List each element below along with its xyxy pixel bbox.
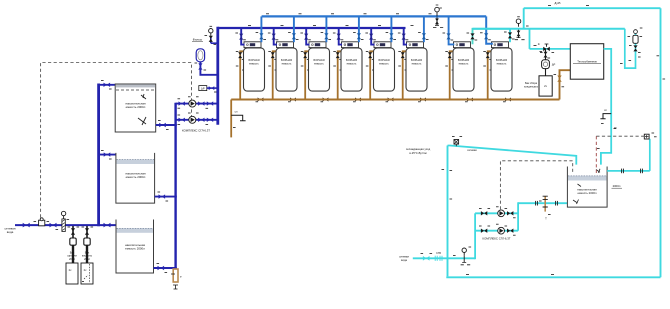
valve blue feed R8 bbox=[484, 33, 488, 39]
svg-text:конденсата: конденсата bbox=[524, 86, 538, 89]
heat exchanger HX1 bbox=[570, 44, 603, 79]
label above header near R1 bbox=[248, 24, 251, 26]
water meter FQ1 bbox=[39, 220, 45, 226]
valve navy stub R6 bbox=[402, 34, 406, 40]
valve on CIP riser R5 bbox=[368, 52, 372, 58]
valve on bottom header under R2 bbox=[290, 98, 296, 102]
gauge on supply bbox=[462, 248, 466, 252]
svg-text:вода: вода bbox=[7, 230, 14, 234]
valve on HX inlet bbox=[543, 47, 550, 51]
svg-text:емкость: емкость bbox=[282, 63, 292, 66]
valve blue stub R1 bbox=[259, 33, 263, 39]
tank R6 vessel bbox=[406, 48, 427, 91]
valve block on tank R4 bbox=[342, 42, 359, 48]
mark on HX drop bbox=[614, 127, 617, 129]
pump P3 circulation bbox=[498, 210, 505, 217]
svg-text:200л: 200л bbox=[84, 257, 90, 261]
wire relief loop bbox=[625, 29, 636, 68]
regulator on relief riser bbox=[633, 35, 638, 43]
wire cooling slant line bbox=[448, 146, 577, 165]
svg-text:БОРНАЯ: БОРНАЯ bbox=[249, 58, 260, 62]
pipe CIP brown riser tank R8 bbox=[488, 51, 492, 99]
svg-text:ΔР: ΔР bbox=[552, 63, 556, 67]
valve block on tank R6 bbox=[407, 42, 424, 48]
wire blue stub tank R6 bbox=[423, 16, 425, 42]
svg-text:вода: вода bbox=[401, 259, 407, 262]
check valve row1 bbox=[207, 101, 213, 105]
svg-text:Бак сбора: Бак сбора bbox=[525, 81, 538, 85]
label on cooling drop bbox=[442, 169, 445, 171]
valve navy stub R1 bbox=[239, 34, 243, 40]
valve on CIP riser R6 bbox=[401, 52, 405, 58]
valve row1 suction bbox=[179, 101, 185, 105]
valve seafoam stub R7 bbox=[470, 33, 474, 39]
tank R8 vessel bbox=[491, 48, 512, 91]
svg-text:БОРНАЯ: БОРНАЯ bbox=[314, 58, 325, 62]
valve block on tank R1 bbox=[244, 42, 261, 48]
svg-text:в-25°С-Ву=1м: в-25°С-Ву=1м bbox=[409, 151, 426, 155]
wire condensate line bbox=[545, 49, 547, 76]
wire navy stub tank R5 bbox=[371, 28, 374, 45]
svg-text:БОРНАЯ: БОРНАЯ bbox=[496, 58, 507, 62]
valve on brown riser bbox=[557, 76, 561, 82]
wire tank T4 return inlet bbox=[607, 170, 650, 172]
wire cyan line into HX bbox=[530, 48, 571, 50]
svg-text:емкость: емкость bbox=[497, 63, 507, 66]
wire tank T1 outlet stub bbox=[156, 124, 177, 126]
dosing pump DP2 bbox=[84, 238, 90, 245]
svg-text:сл: сл bbox=[235, 111, 238, 114]
svg-text:емкость: емкость bbox=[412, 63, 422, 66]
wire dosing branch 2 bbox=[86, 226, 88, 263]
gauge PI3 on blue header bbox=[435, 7, 440, 12]
label above header near R5 bbox=[378, 24, 381, 26]
valve on bottom header under R3 bbox=[323, 98, 329, 102]
valve row2 suction bbox=[179, 118, 185, 122]
check valve row2 bbox=[207, 118, 213, 122]
svg-text:емкость 2000л: емкость 2000л bbox=[577, 191, 596, 195]
wire circ manifold left riser bbox=[474, 213, 476, 259]
gauge PI4 on cyan header bbox=[516, 19, 521, 24]
pipe CIP brown riser tank R1 bbox=[240, 51, 244, 99]
wire cyan top loop riser bbox=[523, 8, 525, 29]
svg-text:емкость: емкость bbox=[347, 63, 357, 66]
gauge PI1 with strainer bbox=[61, 211, 65, 215]
valve row1 discharge bbox=[198, 101, 204, 105]
tank R5 vessel bbox=[374, 48, 395, 91]
valve on bottom header under R7 bbox=[467, 98, 473, 102]
svg-text:КОМПЛЕКС СГЛ-6,3Т: КОМПЛЕКС СГЛ-6,3Т bbox=[182, 128, 210, 132]
pipe brown to heat exchanger bbox=[560, 70, 571, 99]
valve blue stub R3 bbox=[324, 33, 328, 39]
dosing pump DP1 bbox=[70, 238, 76, 245]
wire navy stub tank R6 bbox=[404, 28, 407, 45]
label dP left bbox=[199, 86, 207, 91]
valve row2 discharge bbox=[198, 118, 204, 122]
svg-text:КОМПЛЕКС СГЛ-6,3Т: КОМПЛЕКС СГЛ-6,3Т bbox=[483, 237, 511, 241]
valve on CIP riser R1 bbox=[238, 52, 242, 58]
pipe CIP brown riser tank R6 bbox=[403, 51, 407, 99]
wire blue distribution header bbox=[262, 15, 487, 17]
pipe CIP brown riser tank R7 bbox=[450, 51, 454, 99]
wire cyan drop to HX line bbox=[529, 29, 531, 49]
svg-text:2г: 2г bbox=[538, 42, 540, 46]
wire main riser to headers bbox=[216, 27, 219, 125]
valve V5 tank T2 inlet bbox=[104, 152, 111, 156]
valve on relief riser bbox=[633, 45, 637, 51]
wire tank T3 outlet stub bbox=[154, 267, 177, 269]
wire cyan stub tank R8 bbox=[509, 29, 511, 42]
valve on bottom header under R1 bbox=[258, 98, 264, 102]
wire cyan right drop bbox=[660, 8, 662, 277]
pipe brown header drain drop bbox=[230, 100, 232, 138]
svg-text:ΔР: ΔР bbox=[201, 86, 205, 90]
wire blue stub tank R1 bbox=[260, 16, 262, 42]
svg-text:сл: сл bbox=[604, 109, 607, 112]
valve cyan on supply bbox=[423, 256, 430, 261]
valve circ row2 left bbox=[481, 229, 487, 233]
svg-text:БОРНАЯ: БОРНАЯ bbox=[411, 58, 422, 62]
tank R7 vessel bbox=[453, 48, 474, 91]
wire dashed control meter to pumps bbox=[41, 63, 192, 218]
pipe brown collection header bbox=[231, 99, 559, 101]
wire navy distribution header bbox=[218, 27, 406, 29]
steam trap bbox=[542, 60, 550, 69]
pipe CIP brown riser tank R4 bbox=[338, 51, 342, 99]
wire tank T1 inlet stub bbox=[99, 84, 116, 86]
valve on bottom header under R8 bbox=[505, 98, 511, 102]
svg-text:емкость 2000л: емкость 2000л bbox=[125, 247, 145, 251]
valve on CIP riser R7 bbox=[448, 52, 452, 58]
wire cyan return header bbox=[473, 28, 625, 30]
valve block on tank R3 bbox=[309, 42, 326, 48]
valve V1 on supply bbox=[23, 223, 30, 228]
svg-text:емкость: емкость bbox=[459, 63, 469, 66]
svg-text:Т: Т bbox=[180, 275, 182, 279]
vent below cyan header bbox=[518, 30, 520, 38]
label above header near R4 bbox=[346, 24, 349, 26]
svg-text:охлаждающая уход: охлаждающая уход bbox=[406, 148, 431, 151]
wire manifold row 1 bbox=[176, 103, 219, 105]
chem tank B1 bbox=[66, 263, 78, 284]
pump P2 transfer bbox=[189, 116, 196, 123]
wire dosing branch 1 bbox=[72, 226, 74, 263]
valve block on tank R2 bbox=[277, 42, 294, 48]
wire navy stub tank R2 bbox=[274, 28, 277, 45]
wire manifold row 2 bbox=[176, 119, 219, 121]
valve V4 tank T1 inlet bbox=[104, 83, 111, 87]
tank T1 storage bbox=[115, 84, 156, 132]
svg-text:БОРНАЯ: БОРНАЯ bbox=[379, 58, 390, 62]
valve V6 tank T1 outlet bbox=[159, 123, 166, 127]
valve blue stub R5 bbox=[389, 33, 393, 39]
svg-text:Теплообменник: Теплообменник bbox=[577, 60, 597, 64]
wire circ row 2 bbox=[475, 230, 518, 232]
svg-text:БОРНАЯ: БОРНАЯ bbox=[458, 58, 469, 62]
wire cyan bottom return bbox=[446, 276, 660, 278]
wire HX outlet bbox=[601, 49, 611, 165]
valve on CIP riser R2 bbox=[271, 52, 275, 58]
valve blue stub R6 bbox=[422, 33, 426, 39]
control valve on suction bbox=[544, 196, 546, 211]
valve block on tank R5 bbox=[374, 42, 391, 48]
wire blue stub tank R7 bbox=[449, 16, 455, 44]
wire supply main water line bbox=[15, 224, 116, 226]
valve V2 on supply bbox=[50, 223, 57, 228]
valve V3 before tank T3 bbox=[104, 223, 111, 228]
label above header near R2 bbox=[281, 24, 284, 26]
level instrument LT bbox=[644, 134, 649, 139]
gauge on relief riser bbox=[634, 30, 638, 34]
valve dosing 1 bbox=[71, 228, 75, 234]
valve vent on riser top bbox=[210, 36, 212, 43]
wire cyan top loop horizontal bbox=[524, 7, 661, 9]
label on bottom return bbox=[551, 274, 554, 276]
valve circ row1 right bbox=[507, 211, 513, 215]
condensate vessel bbox=[539, 76, 552, 96]
tank R1 vessel bbox=[244, 48, 265, 91]
wire blue stub tank R4 bbox=[358, 16, 360, 42]
svg-text:Ду25: Ду25 bbox=[555, 1, 562, 5]
wire level riser bbox=[649, 139, 651, 171]
valve dP stub bbox=[209, 86, 215, 90]
wire dashed maroon drop bbox=[595, 136, 597, 175]
coupling on supply bbox=[434, 256, 436, 261]
wire navy stub tank R1 bbox=[241, 28, 244, 45]
wire cooling supply line bbox=[413, 257, 475, 259]
tank R4 vessel bbox=[341, 48, 362, 91]
valve circ row1 left bbox=[481, 211, 487, 215]
tank R3 vessel bbox=[309, 48, 330, 91]
label on top loop bbox=[548, 4, 551, 6]
valve on CIP riser R8 bbox=[486, 52, 490, 58]
wire circ row 1 bbox=[475, 212, 518, 214]
drain fitting below riser bbox=[173, 269, 178, 282]
pump P4 circulation bbox=[498, 227, 505, 234]
valve dosing 2 bbox=[85, 228, 89, 234]
svg-text:сетевая: сетевая bbox=[399, 256, 409, 259]
valve blue stub R2 bbox=[292, 33, 296, 39]
flanges on suction bbox=[535, 201, 537, 206]
pipe CIP brown riser tank R2 bbox=[273, 51, 277, 99]
tank T3 storage bbox=[116, 220, 154, 274]
svg-text:Т: Т bbox=[545, 217, 547, 221]
valve on bottom header under R5 bbox=[388, 98, 394, 102]
wire navy stub tank R4 bbox=[339, 28, 342, 45]
svg-text:СГВ: СГВ bbox=[436, 252, 441, 255]
drain elbow on brown drop bbox=[231, 115, 245, 121]
svg-text:БОРНАЯ: БОРНАЯ bbox=[346, 58, 357, 62]
tank T4 cooling buffer bbox=[567, 167, 607, 208]
valve on CIP riser R4 bbox=[336, 52, 340, 58]
wire filter to riser bbox=[200, 62, 217, 75]
wire blue stub tank R5 bbox=[390, 16, 392, 42]
label above header near R3 bbox=[313, 24, 316, 26]
tank R2 vessel bbox=[276, 48, 297, 91]
valve navy stub R2 bbox=[272, 34, 276, 40]
valve navy stub R3 bbox=[304, 34, 308, 40]
valve on condensate line bbox=[544, 52, 548, 58]
svg-text:200л: 200л bbox=[69, 257, 75, 261]
valve blue stub R7 bbox=[447, 33, 451, 39]
instrument on slant line bbox=[454, 140, 459, 145]
svg-text:2000л: 2000л bbox=[613, 184, 621, 188]
wire riser tank outlets bbox=[174, 103, 176, 269]
svg-text:емкость: емкость bbox=[249, 63, 259, 66]
pipe CIP brown riser tank R5 bbox=[370, 51, 374, 99]
pump P1 transfer bbox=[189, 100, 196, 107]
valve navy stub R5 bbox=[369, 34, 373, 40]
svg-text:емкость 2000л: емкость 2000л bbox=[126, 175, 146, 179]
wire circ right riser bbox=[517, 202, 519, 230]
valve block on tank R7 bbox=[454, 42, 471, 48]
valve V7 tank T2 outlet bbox=[159, 194, 166, 198]
valve cyan stub R8 bbox=[508, 32, 512, 38]
wire dashed pump control bbox=[500, 161, 572, 210]
valve on bottom header under R4 bbox=[355, 98, 361, 102]
label above header near R6 bbox=[411, 24, 414, 26]
wire tank T2 inlet stub bbox=[99, 154, 116, 156]
wire dP to riser bbox=[207, 87, 218, 89]
wire dashed level to valve bbox=[596, 135, 644, 137]
valve on CIP riser R3 bbox=[303, 52, 307, 58]
wire blue stub tank R3 bbox=[325, 16, 327, 42]
chem tank B2 bbox=[81, 263, 93, 284]
valve block on tank R8 bbox=[492, 42, 509, 48]
wire tank T2 outlet stub bbox=[155, 196, 177, 198]
svg-text:БОРНАЯ: БОРНАЯ bbox=[281, 58, 292, 62]
svg-text:сетевая: сетевая bbox=[467, 149, 477, 152]
wire riser left feed bbox=[97, 84, 100, 227]
wire seafoam stub tank R7 bbox=[473, 29, 511, 44]
wire blue stub tank R2 bbox=[293, 16, 295, 42]
svg-text:Фильтр: Фильтр bbox=[193, 38, 203, 42]
gauge PI2 on riser bbox=[209, 29, 213, 33]
valve on bottom header under R6 bbox=[420, 98, 426, 102]
wire circ suction line bbox=[518, 202, 567, 204]
wire blue feed tank R8 bbox=[486, 16, 493, 43]
flanges on T4 inlet bbox=[621, 169, 623, 174]
vent below blue header bbox=[436, 18, 438, 26]
valve navy stub R4 bbox=[337, 34, 341, 40]
svg-text:емкость 2000л: емкость 2000л bbox=[126, 105, 146, 109]
valve circ row2 right bbox=[507, 229, 513, 233]
svg-text:емкость: емкость bbox=[379, 63, 389, 66]
pipe CIP brown riser tank R3 bbox=[305, 51, 309, 99]
wire cooling left drop bbox=[447, 146, 449, 277]
tank T2 storage bbox=[116, 153, 155, 203]
label steam line bbox=[534, 45, 537, 47]
valve V8 tank T3 outlet bbox=[158, 266, 165, 270]
valve blue stub R4 bbox=[357, 33, 361, 39]
valve under filter bbox=[198, 63, 202, 69]
drain on HX outlet drop bbox=[600, 114, 611, 119]
svg-text:емкость: емкость bbox=[314, 63, 324, 66]
wire navy stub tank R3 bbox=[306, 28, 309, 45]
